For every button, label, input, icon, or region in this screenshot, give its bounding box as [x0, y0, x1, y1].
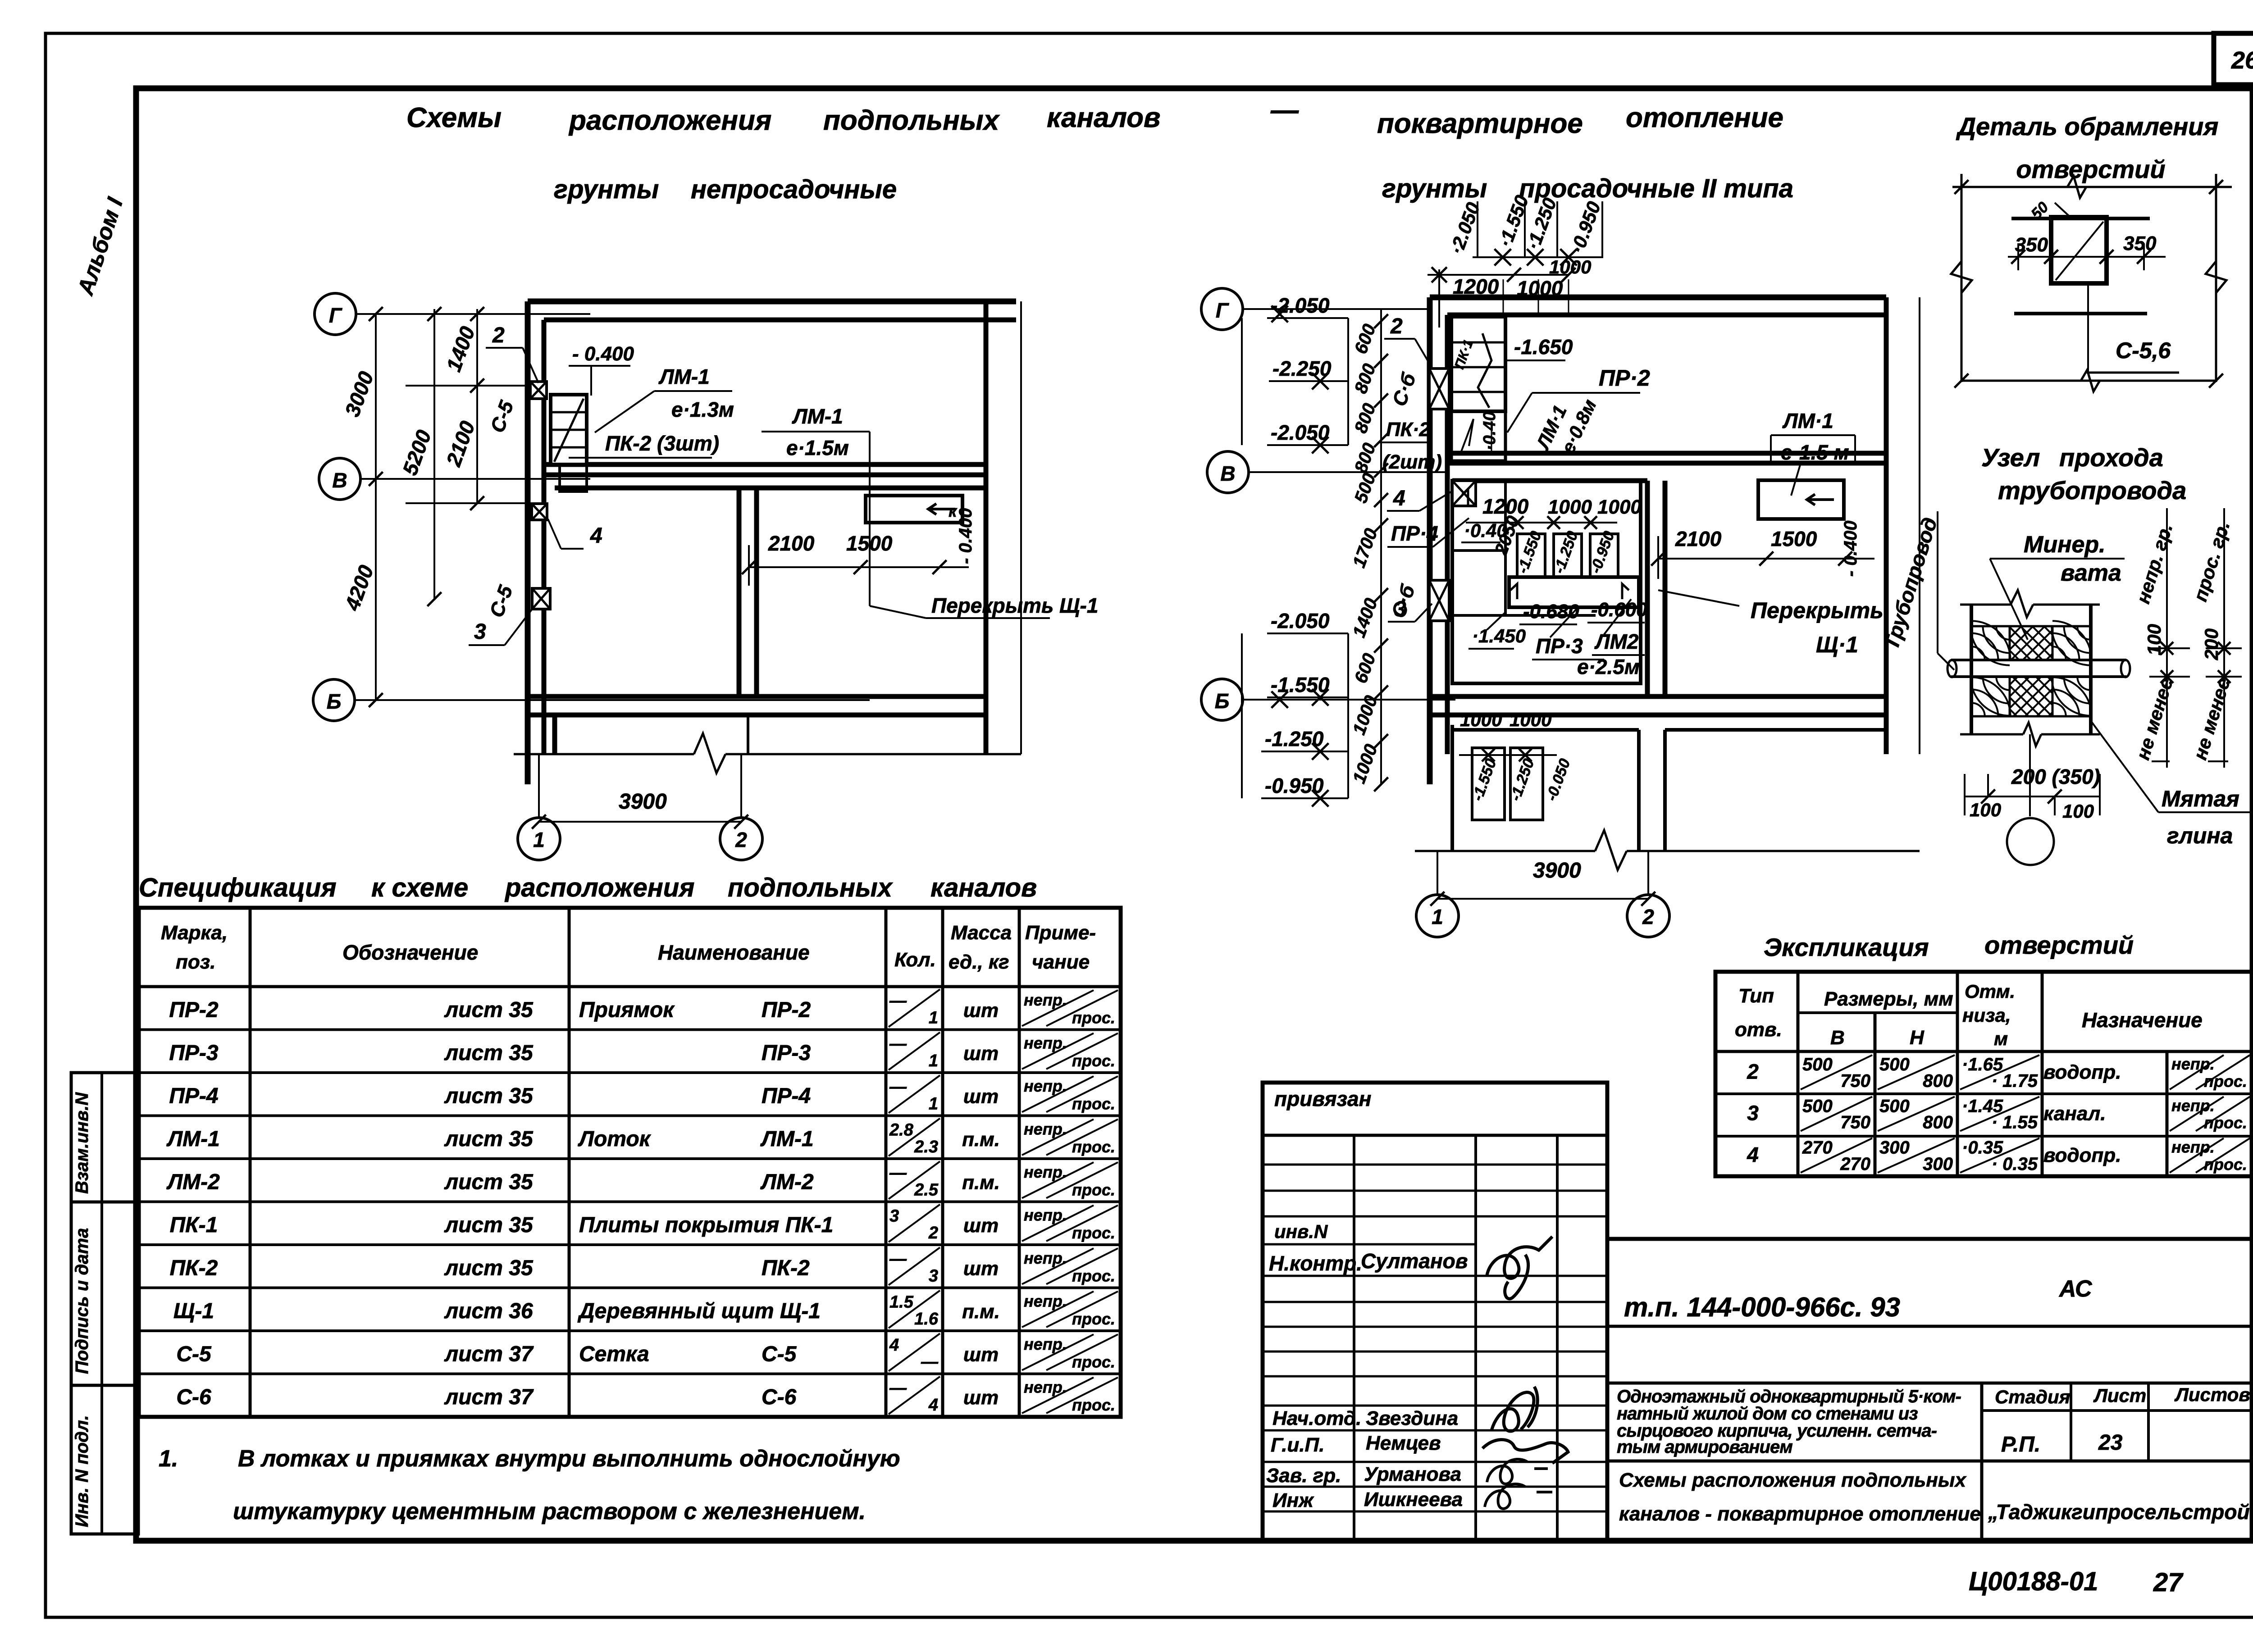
svg-text:Г: Г	[329, 304, 342, 327]
svg-text:лист 35: лист 35	[444, 1041, 534, 1065]
svg-text:—: —	[889, 1164, 907, 1183]
svg-text:·1.450: ·1.450	[1472, 625, 1526, 646]
svg-text:Г: Г	[1216, 299, 1229, 322]
svg-text:прос.: прос.	[2204, 1155, 2247, 1174]
svg-text:ПК-1: ПК-1	[170, 1213, 218, 1237]
svg-text:прос.: прос.	[1072, 1095, 1115, 1113]
uzel right dim lines	[2166, 508, 2168, 768]
svg-text:Султанов: Султанов	[1361, 1249, 1468, 1273]
svg-text:Инж: Инж	[1272, 1489, 1314, 1511]
svg-text:отверстий: отверстий	[1984, 931, 2134, 959]
leader to C-5,6	[2087, 284, 2089, 373]
left plan channel K near V	[866, 496, 962, 523]
svg-text:1.: 1.	[159, 1446, 178, 1472]
right plan middle room pit rect	[1452, 481, 1641, 683]
right plan stair detail upper left	[1451, 317, 1505, 411]
svg-text:непр.: непр.	[1024, 1120, 1067, 1138]
right plan left wall inner	[1445, 315, 1450, 754]
svg-text:С-5: С-5	[762, 1343, 797, 1366]
svg-text:1000: 1000	[1548, 496, 1592, 518]
svg-text:—: —	[921, 1353, 939, 1372]
svg-text:прохода: прохода	[2059, 443, 2163, 472]
svg-text:3900: 3900	[619, 790, 667, 814]
svg-text:·0.40: ·0.40	[1480, 411, 1499, 451]
LM2 channel band	[1509, 577, 1639, 607]
svg-text:ПР-3: ПР-3	[762, 1041, 811, 1065]
right plan right section edge	[1884, 297, 1889, 754]
svg-text:300: 300	[1923, 1154, 1953, 1174]
svg-text:Р.П.: Р.П.	[2001, 1433, 2040, 1456]
right plan middle room outline	[1452, 478, 1647, 483]
svg-text:· 0.35: · 0.35	[1992, 1154, 2038, 1174]
svg-text:Марка,: Марка,	[161, 922, 228, 944]
uzel block bottom line with break	[1960, 733, 2023, 736]
svg-text:непр.: непр.	[1024, 1335, 1067, 1353]
svg-text:Г.и.П.: Г.и.П.	[1271, 1434, 1324, 1456]
svg-text:Урманова: Урманова	[1364, 1463, 1461, 1485]
svg-text:Н.контр.: Н.контр.	[1269, 1252, 1362, 1275]
svg-text:Немцев: Немцев	[1366, 1432, 1441, 1454]
svg-text:4: 4	[928, 1396, 938, 1415]
spec table frame	[139, 908, 1121, 1417]
svg-text:270: 270	[1802, 1138, 1833, 1158]
privyazan columns	[1353, 1135, 1355, 1541]
svg-text:26: 26	[2231, 47, 2253, 74]
svg-text:2.8: 2.8	[889, 1121, 914, 1140]
svg-text:—: —	[889, 1035, 907, 1054]
svg-text:поквартирное: поквартирное	[1377, 108, 1583, 139]
svg-text:1: 1	[533, 828, 545, 851]
svg-text:С-5: С-5	[176, 1343, 212, 1366]
svg-text:1500: 1500	[846, 532, 893, 555]
svg-text:штукатурку цементным раствором: штукатурку цементным раствором с железне…	[233, 1498, 866, 1525]
right plan left wall outer	[1427, 297, 1433, 784]
svg-text:500: 500	[1879, 1055, 1910, 1074]
left plan middle wall double	[737, 488, 742, 696]
right plan axis circle G	[1201, 288, 1243, 330]
right plan top wall inner	[1447, 313, 1886, 318]
svg-text:прос.: прос.	[1072, 1310, 1115, 1328]
svg-text:—: —	[889, 1078, 907, 1097]
svg-text:к схеме: к схеме	[371, 873, 468, 902]
right plan upper room floor double	[1447, 451, 1886, 456]
right axis line G	[1243, 308, 1430, 310]
svg-text:·0.40: ·0.40	[1464, 520, 1507, 541]
svg-text:800: 800	[1923, 1071, 1953, 1091]
svg-text:300: 300	[1879, 1138, 1910, 1158]
right plan lower rooms below B	[1450, 725, 1454, 851]
svg-text:2: 2	[1390, 314, 1403, 338]
svg-text:1000: 1000	[1549, 256, 1591, 278]
svg-text:1: 1	[1432, 905, 1443, 928]
right plan column circle 1	[1416, 895, 1459, 937]
right plan axis circle V	[1207, 451, 1249, 493]
svg-text:п.м.: п.м.	[962, 1301, 1000, 1323]
svg-text:500: 500	[1879, 1096, 1910, 1116]
detail opening square	[2051, 217, 2107, 283]
svg-text:800: 800	[1923, 1113, 1953, 1133]
title block frame	[1607, 1237, 2253, 1241]
svg-text:каналов: каналов	[930, 873, 1037, 902]
svg-text:(2шт): (2шт)	[1382, 451, 1442, 473]
svg-text:прос.: прос.	[1072, 1267, 1115, 1285]
left plan column circle 2	[720, 818, 762, 860]
crossed box C-6 lower	[1429, 580, 1449, 621]
privyazan table frame	[1263, 1083, 1607, 1541]
dim chain 1400/2100	[476, 309, 478, 503]
svg-text:каналов: каналов	[1047, 102, 1160, 133]
detail dim 350 left	[2008, 256, 2166, 258]
svg-text:В: В	[1830, 1027, 1845, 1049]
svg-text:п.м.: п.м.	[962, 1172, 1000, 1194]
svg-text:Звездина: Звездина	[1366, 1407, 1458, 1429]
svg-text:1.5: 1.5	[889, 1293, 914, 1312]
svg-text:Деревянный щит Щ-1: Деревянный щит Щ-1	[577, 1299, 821, 1323]
svg-text:e·1.3м: e·1.3м	[671, 398, 734, 421]
svg-text:Схемы: Схемы	[406, 102, 502, 133]
stadiya list listov	[1980, 1383, 1984, 1541]
left plan stair channel PK-2 detail	[551, 395, 587, 464]
svg-text:1: 1	[929, 1051, 938, 1070]
svg-text:водопр.: водопр.	[2043, 1061, 2121, 1083]
svg-text:шт: шт	[963, 1000, 999, 1022]
dim chain 5200	[433, 309, 435, 599]
svg-text:- 0.400: - 0.400	[1841, 520, 1861, 577]
svg-text:В: В	[1220, 462, 1235, 485]
svg-text:Отм.: Отм.	[1965, 981, 2015, 1002]
svg-text:Ишкнеева: Ишкнеева	[1364, 1488, 1463, 1511]
svg-text:низа,: низа,	[1962, 1005, 2011, 1026]
svg-text:2.5: 2.5	[914, 1181, 939, 1200]
svg-text:непр.: непр.	[1024, 1206, 1067, 1224]
svg-text:подпольных: подпольных	[728, 873, 894, 902]
svg-text:непр.: непр.	[1024, 1034, 1067, 1052]
svg-text:4: 4	[1393, 487, 1405, 510]
svg-text:С-5,6: С-5,6	[2116, 338, 2171, 363]
svg-text:ЛМ-1: ЛМ-1	[658, 365, 710, 388]
detail frame dim line top	[1952, 186, 2232, 188]
svg-text:грунты: грунты	[554, 175, 659, 204]
svg-text:Обозначение: Обозначение	[342, 941, 478, 964]
right plan axis circle B	[1201, 679, 1243, 720]
svg-text:—: —	[1270, 95, 1299, 126]
svg-text:непр.: непр.	[1024, 1292, 1067, 1311]
left plan room row V-B top edge	[555, 486, 986, 491]
detail vertical zigzags	[1951, 261, 1972, 293]
margin box Podpis i data	[71, 1202, 138, 1385]
svg-text:2: 2	[492, 323, 505, 347]
svg-text:ПР·2: ПР·2	[1599, 365, 1650, 391]
svg-text:Сетка: Сетка	[579, 1343, 649, 1366]
svg-text:шт: шт	[963, 1258, 999, 1280]
svg-text:4: 4	[1747, 1143, 1759, 1166]
uzel pipe	[1951, 659, 2126, 661]
svg-text:100: 100	[2144, 624, 2165, 655]
detail mesh line below	[2014, 312, 2147, 315]
svg-text:500: 500	[1802, 1055, 1833, 1074]
svg-text:непр.: непр.	[1024, 1163, 1067, 1181]
svg-text:200: 200	[2201, 628, 2222, 660]
svg-text:тым армированием: тым армированием	[1617, 1437, 1792, 1457]
small hatched boxes row V-B	[1517, 534, 1545, 577]
svg-text:-1.650: -1.650	[1514, 335, 1573, 359]
svg-text:Мятая: Мятая	[2162, 786, 2239, 811]
left plan right section edge	[984, 301, 989, 754]
svg-text:1.6: 1.6	[914, 1310, 939, 1329]
svg-text:Кол.: Кол.	[894, 949, 936, 971]
svg-text:1: 1	[929, 1095, 938, 1114]
svg-text:инв.N: инв.N	[1274, 1221, 1328, 1242]
svg-text:e·1.5м: e·1.5м	[786, 436, 849, 460]
svg-text:С-6: С-6	[762, 1385, 797, 1409]
svg-text:ЛМ-2: ЛМ-2	[760, 1170, 814, 1194]
svg-text:лист 37: лист 37	[444, 1385, 534, 1409]
svg-text:Деталь обрамления: Деталь обрамления	[1956, 112, 2219, 141]
privyazan thin rows	[1263, 1164, 1607, 1166]
svg-text:привязан: привязан	[1274, 1087, 1371, 1110]
svg-text:3900: 3900	[1533, 859, 1581, 883]
left plan upper room floor double line	[544, 462, 986, 467]
axis line G	[356, 313, 590, 315]
svg-text:Стадия: Стадия	[1995, 1386, 2070, 1407]
right plan channel K rect	[1758, 480, 1844, 519]
svg-text:Приямок: Приямок	[579, 998, 675, 1022]
svg-text:Ц00188-01: Ц00188-01	[1969, 1567, 2098, 1596]
svg-text:270: 270	[1840, 1154, 1870, 1174]
svg-text:2100: 2100	[768, 532, 815, 555]
svg-text:100: 100	[1970, 799, 2001, 820]
svg-text:Масса: Масса	[951, 922, 1012, 944]
svg-text:ПР·3: ПР·3	[1536, 634, 1583, 658]
right plan bottom band double	[1430, 694, 1886, 699]
svg-text:ЛМ-1: ЛМ-1	[760, 1127, 814, 1151]
svg-text:шт: шт	[963, 1387, 999, 1409]
svg-text:2.3: 2.3	[914, 1138, 938, 1156]
svg-text:e·2.5м: e·2.5м	[1577, 655, 1640, 678]
svg-text:Взам.инв.N: Взам.инв.N	[72, 1092, 92, 1194]
svg-text:· 1.75: · 1.75	[1992, 1071, 2038, 1091]
svg-text:- 0.400: - 0.400	[572, 343, 634, 365]
left plan column circle 1	[518, 818, 560, 860]
svg-text:-0.600: -0.600	[1591, 599, 1647, 621]
svg-text:Нач.отд.: Нач.отд.	[1272, 1407, 1361, 1429]
svg-text:ПР-4: ПР-4	[169, 1084, 218, 1108]
dim chain small 600/800 column	[1380, 309, 1382, 784]
svg-text:1000: 1000	[1510, 709, 1551, 730]
svg-text:Схемы расположения подпольных: Схемы расположения подпольных	[1619, 1469, 1966, 1491]
sheet number box 26	[2214, 33, 2253, 85]
svg-text:отопление: отопление	[1626, 102, 1783, 133]
svg-text:Щ·1: Щ·1	[1816, 632, 1858, 657]
svg-text:т.п. 144-000-966с. 93: т.п. 144-000-966с. 93	[1624, 1292, 1900, 1322]
detail frame dim line bottom	[1961, 380, 2216, 382]
svg-text:непр.: непр.	[1024, 991, 1067, 1009]
svg-text:лист 35: лист 35	[444, 998, 534, 1022]
svg-text:Узел: Узел	[1981, 443, 2040, 472]
C-5 crossed box 2	[530, 382, 547, 399]
uzel block left wall	[1970, 605, 1973, 734]
svg-text:прос.: прос.	[1072, 1224, 1115, 1242]
axis line V	[360, 478, 590, 480]
uzel pipe leader	[1917, 669, 1954, 670]
svg-text:ПР-2: ПР-2	[169, 998, 219, 1022]
svg-text:поз.: поз.	[176, 951, 215, 973]
svg-text:Тип: Тип	[1738, 985, 1774, 1007]
svg-text:непр.: непр.	[1024, 1249, 1067, 1267]
svg-text:2: 2	[735, 828, 747, 851]
spec table header row	[139, 985, 1121, 988]
svg-text:200 (350): 200 (350)	[2011, 765, 2100, 788]
svg-text:Плиты покрытия ПК-1: Плиты покрытия ПК-1	[579, 1213, 833, 1237]
svg-text:лист 35: лист 35	[444, 1084, 534, 1108]
right plan top wall outer	[1430, 295, 1886, 300]
svg-text:Подпись и дата: Подпись и дата	[72, 1228, 92, 1374]
svg-text:2: 2	[928, 1224, 938, 1242]
svg-text:шт: шт	[963, 1086, 999, 1108]
svg-text:Инв. N подл.: Инв. N подл.	[72, 1415, 92, 1527]
svg-text:2: 2	[1642, 905, 1654, 928]
left plan left wall inner	[542, 320, 547, 754]
svg-text:Назначение: Назначение	[2082, 1008, 2203, 1032]
svg-text:непр.: непр.	[1024, 1378, 1067, 1397]
left plan left wall outer	[525, 301, 531, 784]
svg-text:Перекрыть: Перекрыть	[1751, 598, 1884, 623]
svg-text:каналов - поквартирное отоплен: каналов - поквартирное отопление	[1619, 1503, 1981, 1525]
svg-text:750: 750	[1840, 1113, 1870, 1133]
svg-text:Б: Б	[327, 690, 342, 713]
uzel arc hatches	[1971, 646, 1985, 660]
svg-text:Экспликация: Экспликация	[1764, 933, 1929, 961]
svg-text:350: 350	[2015, 234, 2048, 256]
left plan top wall outer	[528, 299, 1016, 305]
svg-text:Б: Б	[1215, 689, 1230, 713]
svg-text:„Таджикгипросельстрой": „Таджикгипросельстрой"	[1988, 1500, 2253, 1524]
uzel leader line to circle	[2029, 734, 2031, 796]
svg-text:расположения: расположения	[504, 873, 694, 902]
svg-text:ЛМ-2: ЛМ-2	[166, 1170, 220, 1194]
svg-text:шт: шт	[963, 1042, 999, 1065]
svg-text:4: 4	[889, 1336, 899, 1355]
right plan column circle 2	[1627, 895, 1669, 937]
svg-text:ЛМ·1: ЛМ·1	[1782, 409, 1833, 432]
svg-text:Приме-: Приме-	[1025, 922, 1096, 944]
svg-text:1: 1	[929, 1009, 938, 1028]
svg-text:прос.: прос.	[1072, 1396, 1115, 1414]
uzel hatch band upper	[1971, 626, 2010, 660]
svg-text:водопр.: водопр.	[2043, 1144, 2121, 1166]
svg-text:лист 35: лист 35	[444, 1127, 534, 1151]
svg-text:4: 4	[590, 524, 602, 548]
svg-text:канал.: канал.	[2043, 1103, 2106, 1125]
upper elevation chain above right plan	[1477, 201, 1478, 257]
svg-text:ПР·4: ПР·4	[1391, 522, 1438, 545]
detail mesh line above	[2011, 217, 2150, 220]
svg-text:—: —	[889, 1250, 907, 1269]
svg-text:3: 3	[929, 1267, 938, 1286]
svg-text:ПР-2: ПР-2	[762, 998, 811, 1022]
svg-text:-1.550: -1.550	[1271, 673, 1330, 696]
left plan bottom boundary with break	[514, 753, 694, 755]
svg-text:-2.050: -2.050	[1271, 294, 1330, 317]
svg-text:—: —	[889, 1379, 907, 1398]
svg-text:ед., кг: ед., кг	[949, 951, 1009, 973]
uzel hatch band lower	[1971, 677, 2010, 716]
svg-text:Н: Н	[1910, 1027, 1925, 1049]
svg-text:1000: 1000	[1460, 709, 1502, 730]
svg-text:подпольных: подпольных	[823, 105, 1000, 136]
svg-text:3: 3	[1747, 1101, 1759, 1125]
svg-text:просадочные II типа: просадочные II типа	[1519, 174, 1793, 203]
svg-text:Лист: Лист	[2093, 1385, 2146, 1406]
left plan axis circle B	[313, 679, 355, 721]
svg-text:прос.: прос.	[1072, 1181, 1115, 1199]
right axis line B	[1243, 699, 1455, 701]
svg-text:непр.: непр.	[2171, 1096, 2215, 1115]
svg-text:шт: шт	[963, 1344, 999, 1366]
svg-text:Лоток: Лоток	[578, 1127, 652, 1151]
svg-text:отверстий: отверстий	[2016, 155, 2165, 183]
uzel bottom circle	[2007, 818, 2054, 865]
svg-text:лист 35: лист 35	[444, 1256, 534, 1280]
svg-text:грунты: грунты	[1382, 174, 1487, 203]
svg-text:ПК-2: ПК-2	[170, 1256, 218, 1280]
svg-text:Минер.: Минер.	[2024, 532, 2106, 558]
svg-text:27: 27	[2153, 1568, 2184, 1597]
small boxes below B	[1472, 748, 1505, 820]
left plan bottom band double line	[528, 694, 986, 699]
svg-text:-0.680: -0.680	[1523, 601, 1579, 623]
svg-text:1500: 1500	[1771, 527, 1817, 551]
title block description row	[1607, 1382, 2253, 1385]
dim chain 3000/4200	[375, 314, 377, 700]
svg-text:23: 23	[2098, 1431, 2123, 1455]
svg-text:глина: глина	[2167, 823, 2233, 848]
svg-text:500: 500	[1802, 1096, 1833, 1116]
svg-text:ПК-2: ПК-2	[762, 1256, 810, 1280]
margin box Inv.N podl.	[71, 1385, 138, 1534]
svg-text:ПК-2 (3шт): ПК-2 (3шт)	[605, 432, 719, 455]
svg-text:отв.: отв.	[1735, 1019, 1782, 1041]
svg-text:шт: шт	[963, 1215, 999, 1237]
svg-text:—: —	[889, 992, 907, 1010]
svg-text:п.м.: п.м.	[962, 1129, 1000, 1151]
svg-text:-2.050: -2.050	[1271, 609, 1330, 633]
left plan axis circle V	[319, 458, 360, 500]
svg-text:лист 37: лист 37	[444, 1343, 534, 1366]
svg-text:Наименование: Наименование	[658, 941, 810, 964]
svg-text:2: 2	[1747, 1060, 1759, 1083]
uzel block right wall	[2089, 605, 2093, 734]
svg-text:ПР-4: ПР-4	[762, 1084, 811, 1108]
svg-text:В: В	[332, 469, 347, 492]
svg-text:прос.: прос.	[2204, 1072, 2247, 1090]
svg-text:· 1.55: · 1.55	[1992, 1113, 2038, 1133]
svg-text:ЛМ2: ЛМ2	[1594, 630, 1639, 653]
svg-text:Листов: Листов	[2174, 1384, 2250, 1405]
svg-text:непр.: непр.	[2171, 1138, 2215, 1156]
right axis line V	[1249, 471, 1447, 473]
svg-text:чание: чание	[1032, 951, 1090, 973]
left plan top wall inner	[544, 318, 1016, 323]
svg-text:трубопровода: трубопровода	[1998, 476, 2186, 505]
crossed box with arrow pos4	[1452, 481, 1476, 506]
C-5 crossed box 3	[532, 588, 550, 609]
svg-text:В лотках и приямках внутри вып: В лотках и приямках внутри выполнить одн…	[238, 1446, 900, 1472]
svg-text:вата: вата	[2061, 560, 2121, 586]
svg-text:лист 36: лист 36	[444, 1299, 533, 1323]
privyazan middle rows	[1263, 1301, 1607, 1303]
svg-text:Спецификация: Спецификация	[139, 873, 337, 902]
